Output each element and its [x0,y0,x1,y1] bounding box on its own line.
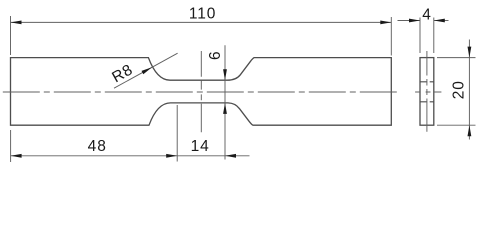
extension line right (110) [390,17,392,56]
svg-text:4: 4 [422,7,431,24]
svg-text:20: 20 [450,80,467,99]
dimension 20 bottom arrow (pointing up) [468,125,472,136]
dimension 4 right segment [434,20,449,22]
svg-text:110: 110 [189,5,216,22]
dimension 14 line and right tail [177,155,249,157]
dimension 6 line (vertical, also 14 right extension) [224,45,226,159]
side view neck top edge line [420,81,434,83]
dimension 6 bottom arrow (pointing up at neck bottom) [223,103,227,114]
dimension 48 left arrow [11,154,22,158]
side view rectangle [420,58,434,126]
vertical centerline (main view) [200,51,202,132]
extension line (48/14 shared) [176,105,178,162]
dimension 110 left arrow [11,21,22,25]
specimen outline (dog-bone front view) [11,58,392,126]
extension lines for 4 [420,18,434,54]
svg-text:6: 6 [207,51,224,60]
horizontal centerline (main view) [3,91,400,93]
dimension 14 right arrow (outside, pointing left) [225,154,236,158]
extension line left (110/48) [10,16,12,162]
dimension 6 top arrow (pointing down at neck top) [223,69,227,80]
R8 leader line [114,53,178,88]
side view horizontal centerline [415,91,441,93]
dimension 4 right arrow (pointing left) [434,19,445,23]
svg-text:48: 48 [88,138,107,155]
dimension 110 right arrow [380,21,391,25]
R8 leader arrow [142,67,153,74]
extension lines for 20 (horizontal) [437,58,476,126]
dimension 4 left segment [398,20,421,22]
svg-text:14: 14 [191,138,210,155]
dimension 48 right arrow [166,154,177,158]
dimension 48 line [11,155,178,157]
dimension 20 line (vertical) [468,40,470,140]
dimension 20 top arrow (pointing down) [468,47,472,58]
dimension 110 line [11,21,392,23]
dimension 4 left arrow (pointing right) [409,19,420,23]
side view neck bottom edge line [420,101,434,103]
side view vertical centerline [426,51,428,132]
